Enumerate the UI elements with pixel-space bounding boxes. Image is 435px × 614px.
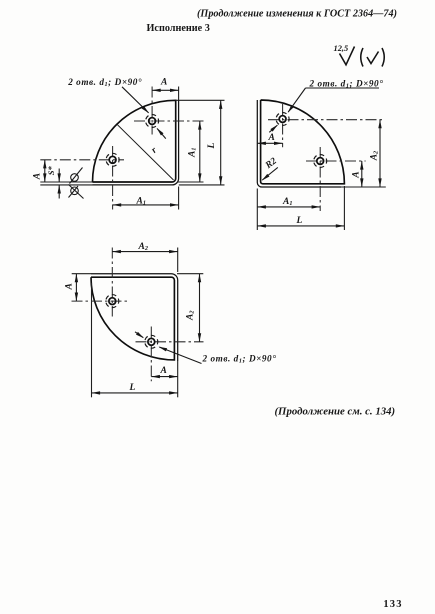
svg-text:L: L: [296, 216, 303, 226]
view 2 hole HA centerlines: [268, 104, 384, 147]
svg-text:A: A: [32, 173, 42, 180]
view 1 plate outline (inner contour with quarter arc): [93, 100, 176, 182]
view 3 outer edge lines: [91, 274, 178, 361]
view 2 extension lines: [257, 186, 386, 230]
view 2 corner radius label R2: [262, 167, 278, 180]
svg-text:A1: A1: [188, 148, 198, 158]
svg-text:A2: A2: [185, 311, 195, 321]
view 3 plate outline (inner contour with quarter arc): [91, 277, 174, 360]
view 2 outer edge lines: [257, 100, 341, 187]
view 3 dimension A (bottom small): [151, 376, 177, 378]
view 1 dimension A1 (right): [199, 121, 201, 182]
view 3 dimension A2 (top): [112, 251, 177, 253]
view 1 radius line r: [118, 125, 174, 180]
svg-text:A: A: [268, 133, 275, 143]
view 3 dimension L (bottom): [92, 392, 178, 394]
view 3 hole H1 (d1 with countersink D): [106, 295, 119, 308]
svg-text:2 отв. d1; D×90°: 2 отв. d1; D×90°: [67, 77, 142, 88]
view 2 hole HA (d1 with countersink D): [276, 113, 289, 126]
svg-text:A2: A2: [369, 151, 379, 161]
svg-text:A: A: [352, 171, 362, 178]
view 2 hole HB (d1 with countersink D): [314, 155, 327, 168]
svg-text:A2: A2: [138, 242, 148, 252]
surface roughness mark 12,5: [340, 47, 385, 67]
svg-text:A: A: [160, 366, 167, 376]
svg-text:L: L: [129, 383, 136, 393]
svg-text:A: A: [65, 283, 75, 290]
view 3 extension lines: [72, 248, 204, 398]
view 2 hole HB centerlines: [306, 147, 366, 211]
view 1 dimension A1 (bottom): [113, 204, 179, 206]
view 1 hole H2 (d1 with countersink D): [106, 153, 119, 166]
view 1 dimension S* (thickness): [58, 169, 60, 182]
svg-text:Исполнение 3: Исполнение 3: [147, 23, 210, 34]
svg-text:A1: A1: [282, 197, 292, 207]
view 1 hole H2 centerlines: [40, 146, 124, 210]
view 3 hole H2 (d1 with countersink D): [145, 335, 158, 348]
view 3 dimension A (left): [75, 274, 77, 301]
view 1 dimension L (right): [220, 100, 222, 185]
svg-text:(Продолжение см. с. 134): (Продолжение см. с. 134): [274, 406, 395, 418]
svg-text:S*: S*: [46, 165, 56, 175]
view 1 dimension A (left): [44, 160, 46, 182]
view 3 hole H2 centerlines: [136, 327, 204, 382]
view 2 dimension A2 (right): [379, 120, 381, 187]
view 1 hole note leader: [122, 87, 166, 139]
view 2 dimension A (right small): [361, 161, 363, 187]
view 2 hole note leader: [269, 88, 379, 132]
view 1 dimension A (top): [152, 89, 179, 91]
svg-text:12,5: 12,5: [334, 44, 349, 53]
svg-text:133: 133: [383, 599, 402, 610]
view 3 hole note leader: [135, 332, 202, 364]
view 3 hole H1 centerlines: [72, 248, 128, 317]
view 1 extension lines: [40, 87, 224, 210]
view 1 hole H1 (d1 with countersink D): [146, 115, 159, 128]
svg-text:r: r: [150, 146, 160, 156]
view 2 dimension L (bottom): [257, 225, 344, 227]
view 1 outer edge lines: [93, 100, 179, 185]
svg-text:A1: A1: [136, 197, 146, 207]
svg-text:2 отв. d1; D×90°: 2 отв. d1; D×90°: [309, 79, 384, 90]
svg-text:A: A: [160, 78, 167, 88]
view 1 hole H1 centerlines: [134, 87, 204, 135]
svg-text:R2: R2: [263, 156, 279, 171]
svg-text:L: L: [207, 143, 217, 150]
view 2 dimension A (upper small): [257, 142, 282, 144]
svg-text:(Продолжение изменения к ГОСТ: (Продолжение изменения к ГОСТ 2364—74): [197, 9, 397, 20]
view 2 plate outline (inner contour with quarter arc): [261, 100, 345, 184]
svg-text:2 отв. d1; D×90°: 2 отв. d1; D×90°: [202, 354, 277, 365]
view 2 dimension A1 (bottom): [257, 206, 320, 208]
view 1 edge symbol marks: [69, 168, 84, 199]
view 3 dimension A2 (right): [199, 274, 201, 342]
